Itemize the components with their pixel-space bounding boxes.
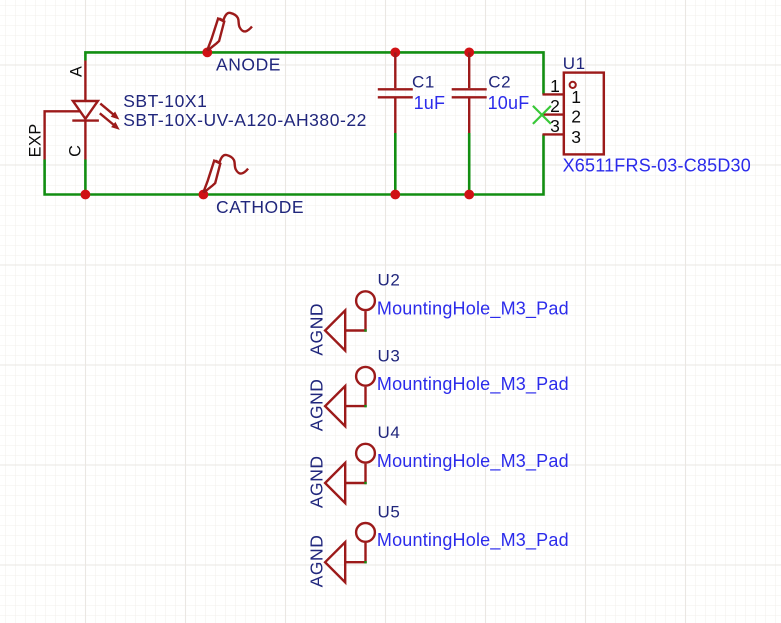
- junction dot C2 bottom: [464, 190, 474, 200]
- wire CATHODE net: EXP vertical, bottom rail, right vertical to U1 pin 3: [45, 134, 544, 194]
- LED cathode pin: [84, 121, 86, 160]
- svg-text:C: C: [67, 145, 85, 157]
- U1 pin 3 stub: [543, 133, 564, 135]
- svg-text:U4: U4: [378, 423, 401, 442]
- wire C2 bottom: [468, 133, 471, 196]
- wire C1 bottom: [394, 133, 397, 196]
- svg-text:C2: C2: [488, 73, 511, 92]
- LED EXP pin: [45, 111, 80, 159]
- svg-text:1uF: 1uF: [414, 93, 446, 113]
- pigtail symbol on ANODE: [208, 13, 252, 50]
- svg-text:AGND: AGND: [307, 455, 327, 508]
- svg-text:EXP: EXP: [27, 123, 45, 157]
- LED D1 symbol: [45, 61, 120, 160]
- svg-text:2: 2: [550, 96, 560, 116]
- LED anode pin: [84, 61, 86, 102]
- capacitor C2 symbol: [452, 52, 487, 133]
- no-connect X on U1 pin 2: [533, 106, 551, 124]
- svg-text:1: 1: [550, 76, 560, 96]
- LED cathode bar: [72, 119, 99, 121]
- junction dot C2 top: [464, 48, 474, 58]
- svg-text:U2: U2: [378, 271, 401, 290]
- svg-text:A: A: [67, 66, 85, 77]
- junction dot ANODE: [202, 48, 212, 58]
- svg-text:SBT-10X1: SBT-10X1: [123, 91, 207, 111]
- connector U1 body: [564, 73, 604, 155]
- svg-text:AGND: AGND: [307, 379, 327, 432]
- svg-text:2: 2: [571, 107, 581, 127]
- svg-text:MountingHole_M3_Pad: MountingHole_M3_Pad: [377, 451, 569, 472]
- U1 pin 1 stub: [543, 93, 564, 95]
- wire ANODE net: anode stub, top rail, right vertical to U1 pin 1: [85, 52, 543, 94]
- mounting hole U5: [325, 523, 375, 582]
- U1 pin1 indicator circle: [570, 82, 576, 88]
- svg-text:U1: U1: [563, 54, 586, 73]
- svg-text:U5: U5: [378, 502, 401, 521]
- mounting hole U4: [325, 444, 375, 503]
- svg-text:SBT-10X-UV-A120-AH380-22: SBT-10X-UV-A120-AH380-22: [123, 110, 367, 130]
- svg-text:C1: C1: [412, 73, 435, 92]
- svg-text:X6511FRS-03-C85D30: X6511FRS-03-C85D30: [563, 156, 751, 176]
- svg-text:U3: U3: [378, 346, 401, 365]
- U1 pin 2 stub: [543, 113, 564, 115]
- junction dot C1 bottom: [390, 190, 400, 200]
- svg-text:1: 1: [571, 87, 581, 107]
- svg-text:MountingHole_M3_Pad: MountingHole_M3_Pad: [377, 298, 569, 319]
- svg-text:3: 3: [550, 116, 560, 136]
- mounting hole U3: [325, 367, 375, 426]
- pigtail symbol on CATHODE: [204, 155, 248, 192]
- junction dot LED cathode: [81, 190, 91, 200]
- svg-text:AGND: AGND: [307, 303, 327, 356]
- svg-text:MountingHole_M3_Pad: MountingHole_M3_Pad: [377, 530, 569, 551]
- svg-text:ANODE: ANODE: [216, 54, 281, 74]
- svg-text:CATHODE: CATHODE: [216, 197, 304, 217]
- LED emission arrow 1: [100, 104, 113, 115]
- svg-text:10uF: 10uF: [488, 93, 530, 113]
- LED emission arrow 2: [100, 113, 114, 125]
- capacitor C1 symbol: [378, 52, 413, 133]
- junction dot CATHODE: [199, 190, 209, 200]
- svg-text:3: 3: [571, 127, 581, 147]
- wire LED cathode to bottom rail: [84, 160, 87, 196]
- LED triangle: [73, 101, 98, 119]
- mounting hole U2: [325, 291, 375, 350]
- junction dot C1 top: [390, 48, 400, 58]
- svg-text:AGND: AGND: [307, 535, 327, 588]
- svg-text:MountingHole_M3_Pad: MountingHole_M3_Pad: [377, 374, 569, 395]
